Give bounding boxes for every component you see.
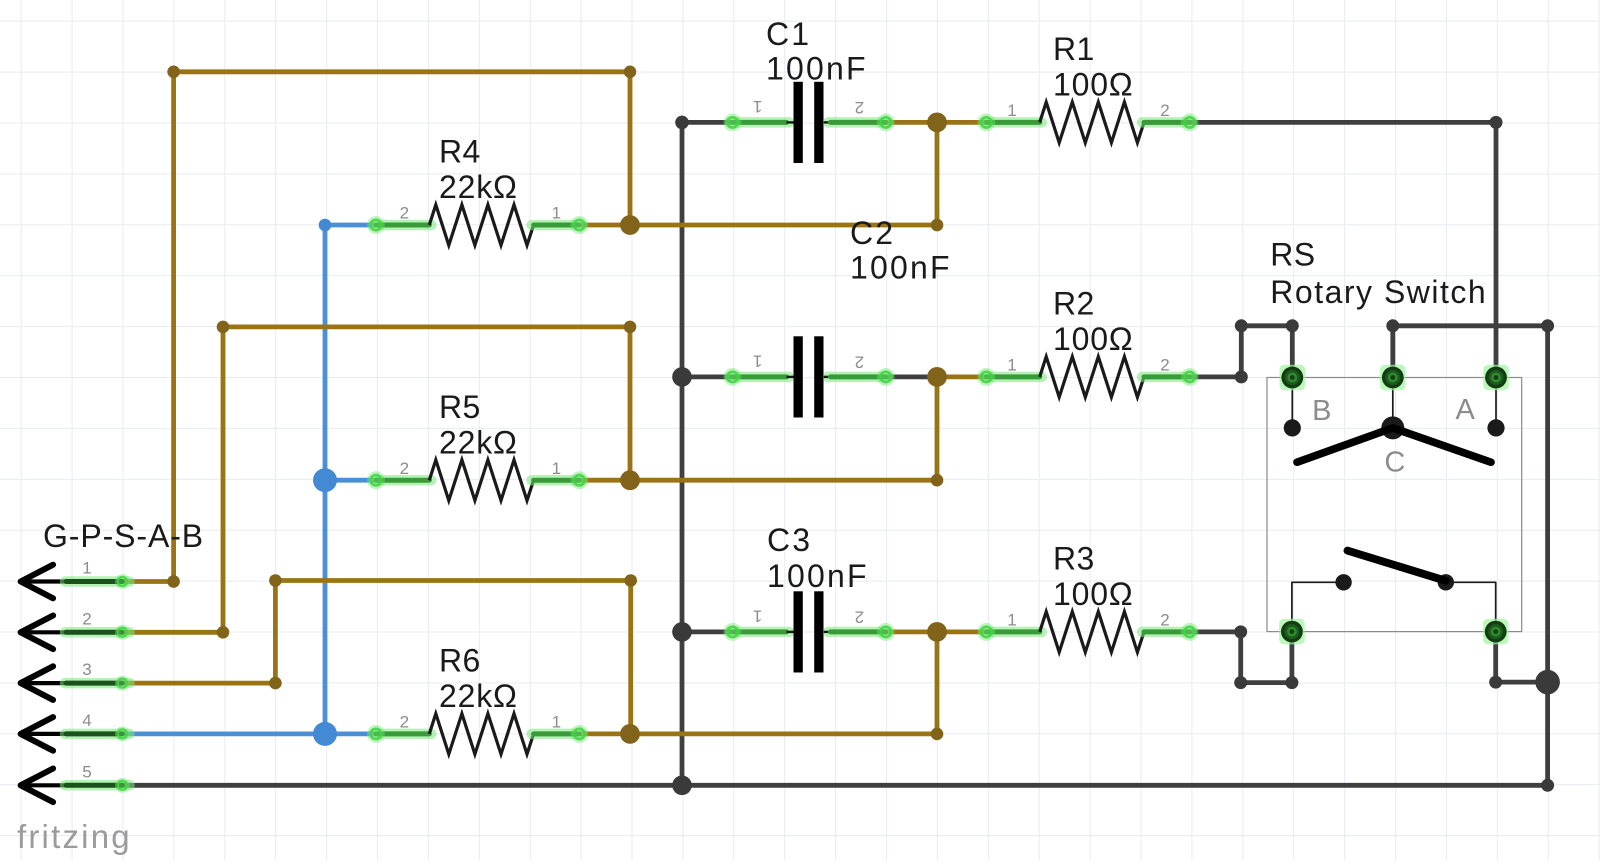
wire: brown pin1 loop over top to R4 junction — [122, 66, 636, 588]
svg-text:1: 1 — [753, 352, 762, 371]
svg-text:2: 2 — [855, 98, 864, 117]
svg-text:1: 1 — [1007, 101, 1016, 120]
header pin 5 — [21, 762, 130, 802]
svg-text:1: 1 — [1007, 356, 1016, 375]
svg-text:1: 1 — [552, 713, 561, 732]
fritzing watermark — [17, 818, 132, 855]
wire: brown R4.1 out to column C and up to C1/R1 junction — [579, 122, 943, 231]
header pin 1 — [21, 559, 130, 599]
svg-text:3: 3 — [82, 660, 91, 679]
wire: dark stub bus to C2.1 — [682, 374, 733, 379]
wire: dark switch bottom-right pin to right riser — [1489, 632, 1547, 689]
svg-text:1: 1 — [1007, 611, 1016, 630]
header pin 3 — [21, 660, 130, 700]
svg-text:R1: R1 — [1053, 31, 1095, 67]
resistor R6 22kΩ — [367, 643, 588, 755]
svg-text:2: 2 — [1160, 101, 1169, 120]
svg-text:Rotary Switch: Rotary Switch — [1270, 274, 1487, 310]
junction: brown at R5 output — [620, 470, 640, 490]
wire: dark R1.2 over to switch pin A — [1190, 116, 1503, 378]
rotary switch internal contacts — [1284, 378, 1505, 632]
header pin 2 — [21, 609, 130, 649]
header pin 4 — [21, 711, 130, 751]
svg-text:B: B — [1312, 395, 1332, 427]
svg-text:2: 2 — [400, 204, 409, 223]
net label G-P-S-A-B — [43, 518, 204, 554]
svg-text:C3: C3 — [767, 522, 812, 558]
svg-text:22kΩ: 22kΩ — [439, 169, 518, 205]
svg-text:1: 1 — [552, 459, 561, 478]
rotary switch label RS — [1270, 237, 1487, 311]
rotary switch pin (bottom left) — [1279, 619, 1305, 645]
svg-text:1: 1 — [82, 559, 91, 578]
junction: blue at R6/pin4 row — [313, 722, 337, 746]
rotary switch pin B (top left) — [1280, 365, 1306, 391]
wire: brown R6.1 out to column C and up to C3 junction — [579, 632, 943, 740]
wire: brown R5.1 out to column C and up to C2 junction — [579, 377, 943, 487]
svg-text:2: 2 — [1160, 356, 1169, 375]
svg-text:22kΩ: 22kΩ — [439, 678, 518, 714]
svg-text:2: 2 — [82, 609, 91, 628]
wire: brown pin3 loop to R6 junction — [122, 574, 637, 734]
svg-text:R4: R4 — [439, 134, 481, 170]
svg-text:2: 2 — [400, 713, 409, 732]
wire: dark R3.2 jog down to switch bottom-left pin — [1190, 625, 1299, 689]
svg-text:1: 1 — [552, 204, 561, 223]
junction: blue at R5 row — [313, 468, 337, 492]
svg-text:C2: C2 — [850, 215, 895, 251]
svg-text:RS: RS — [1270, 237, 1315, 273]
resistor R2 100Ω — [977, 286, 1198, 398]
svg-text:R3: R3 — [1053, 541, 1095, 577]
junction: bus joins bottom ground run — [672, 776, 692, 796]
svg-text:2: 2 — [1160, 611, 1169, 630]
svg-text:100Ω: 100Ω — [1053, 67, 1134, 103]
svg-text:C: C — [1384, 447, 1405, 479]
capacitor C1 100nF — [724, 16, 895, 163]
resistor R4 22kΩ — [367, 134, 588, 246]
svg-text:4: 4 — [82, 711, 91, 730]
junction: brown C2/R2 node — [927, 367, 947, 387]
junction: bus at C2 row — [672, 367, 692, 387]
resistor R3 100Ω — [977, 541, 1198, 653]
junction: brown at R6 output — [620, 724, 640, 744]
svg-text:R2: R2 — [1053, 286, 1095, 322]
junction: brown C3/R3 node — [927, 622, 947, 642]
wire: dark bus from C1.1 corner down left side of caps — [675, 116, 732, 786]
wire: brown C2 junction to R2.1 — [937, 374, 986, 379]
svg-text:A: A — [1456, 394, 1476, 426]
wire: brown pin2 loop to R5 junction — [122, 321, 636, 639]
wire: ground net bottom run pin5 to right riser up to switch C — [122, 319, 1554, 792]
svg-text:100Ω: 100Ω — [1053, 576, 1134, 612]
svg-text:G-P-S-A-B: G-P-S-A-B — [43, 518, 204, 554]
resistor R1 100Ω — [977, 31, 1198, 143]
rotary switch pin (bottom right) — [1483, 619, 1509, 645]
junction: brown at R4 output — [620, 215, 640, 235]
svg-text:22kΩ: 22kΩ — [439, 424, 518, 460]
svg-text:2: 2 — [855, 607, 864, 626]
rotary switch pin C (top middle) — [1380, 365, 1406, 391]
junction: bus at C3 row — [672, 622, 692, 642]
wire: blue net pin4 to R4/R5/R6 pin2 column — [122, 219, 376, 734]
svg-text:fritzing: fritzing — [17, 818, 132, 855]
svg-text:100nF: 100nF — [766, 51, 868, 87]
svg-text:R6: R6 — [439, 643, 481, 679]
capacitor C2 100nF — [724, 215, 952, 418]
svg-text:100nF: 100nF — [850, 249, 952, 285]
wire: dark C2.2 to brown junction — [886, 374, 937, 379]
svg-text:1: 1 — [753, 607, 762, 626]
junction: brown C1/R1 node — [927, 113, 947, 133]
svg-text:100Ω: 100Ω — [1053, 321, 1134, 357]
wire: dark stub bus to C3.1 — [682, 630, 733, 635]
capacitor C3 100nF — [724, 522, 895, 672]
svg-text:5: 5 — [82, 762, 91, 781]
wire: brown C1.2 through junction to R1.1 — [886, 120, 987, 125]
rotary switch pin A (top right) — [1483, 365, 1509, 391]
svg-text:100nF: 100nF — [767, 558, 869, 594]
svg-text:2: 2 — [400, 459, 409, 478]
rotary switch RS body — [1267, 378, 1522, 632]
wire: dark R2.2 jog up to switch pin B — [1190, 319, 1299, 383]
resistor R5 22kΩ — [367, 389, 588, 501]
svg-text:R5: R5 — [439, 389, 481, 425]
junction: right riser at bottom-right switch wire — [1535, 670, 1560, 695]
svg-text:1: 1 — [753, 97, 762, 116]
svg-text:C1: C1 — [766, 16, 811, 52]
svg-text:2: 2 — [855, 352, 864, 371]
wire: brown C3.2 through junction to R3.1 — [886, 630, 987, 635]
